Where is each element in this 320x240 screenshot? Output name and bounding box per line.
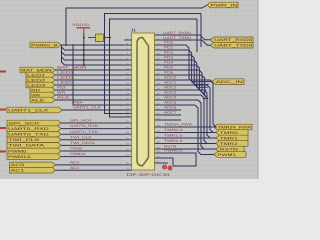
svg-text:ADC3: ADC3 <box>164 91 177 95</box>
svg-text:LED2: LED2 <box>27 78 45 82</box>
svg-text:PWM1.0: PWM1.0 <box>164 149 183 153</box>
svg-text:UART0_TXD: UART0_TXD <box>70 130 99 134</box>
port UART0_TXD <box>7 131 61 137</box>
svg-text:ADC_IN: ADC_IN <box>216 80 244 84</box>
svg-text:PB4: PB4 <box>73 101 83 105</box>
svg-text:TWI_DATA: TWI_DATA <box>8 144 45 148</box>
wire GND row153 <box>162 153 196 166</box>
svg-text:AC0: AC0 <box>70 161 80 165</box>
offsheet marker y=151.5 <box>0 151 6 153</box>
svg-text:UART0_TXD: UART0_TXD <box>8 132 49 136</box>
svg-text:AC1: AC1 <box>11 168 25 172</box>
wire PWM0 <box>61 150 124 152</box>
svg-text:TMR2.0: TMR2.0 <box>164 139 183 143</box>
wire TMR row143.5 <box>162 143 216 145</box>
wire fan row60 <box>62 57 125 60</box>
svg-text:RD: RD <box>31 88 41 92</box>
svg-text:WR: WR <box>31 93 41 97</box>
svg-text:ADC7: ADC7 <box>164 111 177 115</box>
wire cascade row60 <box>162 60 206 90</box>
svg-text:TMR1.0: TMR1.0 <box>164 134 183 138</box>
svg-text:SPI_SCK: SPI_SCK <box>8 121 41 125</box>
wire TMR row138 <box>162 137 216 139</box>
svg-text:ADC5: ADC5 <box>164 101 177 105</box>
svg-text:TMR0.0: TMR0.0 <box>164 128 183 132</box>
svg-text:TWI_CLK: TWI_CLK <box>70 135 93 139</box>
wire stub row120 <box>162 119 181 121</box>
port RSTN <box>216 146 244 152</box>
svg-text:LED1: LED1 <box>57 70 74 74</box>
svg-text:PWR0_B: PWR0_B <box>31 43 59 47</box>
port ADC_IN <box>212 79 244 85</box>
svg-text:TMR24_PWR: TMR24_PWR <box>164 123 193 127</box>
offsheet marker y=109.5 <box>0 109 6 111</box>
svg-text:TWI_DATA: TWI_DATA <box>70 141 96 145</box>
port LED2 <box>26 77 55 83</box>
port RD <box>30 87 55 93</box>
wire LED1 <box>55 74 124 76</box>
svg-text:ALE: ALE <box>57 95 71 99</box>
wire ADC row45 <box>162 45 212 82</box>
svg-text:UART_RXD0: UART_RXD0 <box>163 31 191 35</box>
port TMR2 <box>216 141 248 147</box>
svg-text:TMR0: TMR0 <box>220 131 238 135</box>
port UART0_RXD <box>7 126 61 132</box>
svg-text:VDD33: VDD33 <box>72 23 89 27</box>
svg-text:UART1_CLK: UART1_CLK <box>8 108 50 112</box>
wire loop W3 <box>110 19 198 117</box>
svg-text:PWR_IN: PWR_IN <box>211 3 238 7</box>
port UART1_CLK <box>7 107 62 113</box>
port SPI_SCK <box>7 120 61 126</box>
svg-text:PD3: PD3 <box>164 56 174 60</box>
svg-text:LED3: LED3 <box>57 80 74 84</box>
wire PWR_IN net <box>66 5 207 45</box>
junction VDD y=60 <box>83 59 85 61</box>
svg-text:LED3: LED3 <box>27 83 45 87</box>
wire AC0 <box>56 164 125 166</box>
svg-text:TMR2: TMR2 <box>220 142 238 146</box>
power VDD33 <box>72 23 90 33</box>
svg-text:ADC0: ADC0 <box>164 76 177 80</box>
wire BAT_MON <box>55 69 124 71</box>
junction PWR drop <box>65 44 67 46</box>
port TWI_DATA <box>7 143 61 149</box>
port AC1 <box>10 167 56 173</box>
wire SPI_SCK <box>61 122 124 124</box>
port ALE <box>30 97 55 103</box>
port AC0 <box>10 162 56 168</box>
svg-text:UART_TXD0: UART_TXD0 <box>163 36 191 40</box>
wire cascade row70 <box>162 70 205 96</box>
junction F1 out <box>109 36 111 38</box>
wire loop W2 drop <box>200 14 202 48</box>
wire stub row115 <box>162 114 181 116</box>
port TMR0 <box>216 130 248 136</box>
wire TMR cascade row100 <box>162 100 216 149</box>
wire stub row110 <box>162 109 181 111</box>
svg-text:TMR24_PWR: TMR24_PWR <box>218 125 252 129</box>
wire PB4 riser <box>73 45 124 105</box>
port PWM1A <box>7 154 61 160</box>
svg-text:PWM1A: PWM1A <box>70 152 87 156</box>
svg-text:PWM0: PWM0 <box>8 149 26 153</box>
svg-text:ADC1: ADC1 <box>164 81 177 85</box>
wire ALE <box>55 99 124 101</box>
wire fan row55 <box>62 52 125 55</box>
wire cascade row65 <box>162 65 205 93</box>
svg-text:PD4: PD4 <box>164 61 174 65</box>
svg-text:J1: J1 <box>131 28 136 33</box>
svg-text:PD1: PD1 <box>164 46 174 50</box>
connector J1 pins <box>124 32 162 170</box>
svg-text:RD: RD <box>57 85 66 89</box>
svg-text:UART0_RXD: UART0_RXD <box>8 127 49 131</box>
port UART_TXD0 <box>211 42 254 48</box>
port TMR24_PWR <box>214 124 252 130</box>
svg-text:WR: WR <box>57 90 66 94</box>
port PWR0_B <box>30 42 61 48</box>
svg-text:PWM1: PWM1 <box>218 153 236 157</box>
wire TMR row127 <box>162 126 214 128</box>
wire cascade row75 <box>162 75 208 98</box>
svg-text:UART0_RXD: UART0_RXD <box>70 124 99 128</box>
svg-text:PD6: PD6 <box>164 71 174 75</box>
junction VDD y=65 <box>83 64 85 66</box>
port UART_RXD0 <box>211 37 254 43</box>
wire VDD rail <box>83 33 85 65</box>
wire RD <box>55 89 124 91</box>
wire LED3 <box>55 84 124 86</box>
wire UART_TXD0 <box>162 40 211 45</box>
svg-text:RSTN: RSTN <box>220 147 239 151</box>
wire TMR cascade row80 <box>162 80 216 127</box>
wire TMR cascade row85 <box>162 85 216 133</box>
wire TMR cascade row105 <box>162 105 214 155</box>
wire LED2 <box>55 79 124 81</box>
svg-text:SPI_SCK: SPI_SCK <box>70 119 93 123</box>
svg-text:PWM0: PWM0 <box>70 147 83 151</box>
svg-text:ADC6: ADC6 <box>164 106 177 110</box>
wire TWI_DATA <box>61 144 124 146</box>
wire TMR cascade row95 <box>162 95 216 144</box>
svg-text:BAT_MON: BAT_MON <box>57 65 88 69</box>
svg-text:LED2: LED2 <box>57 75 74 79</box>
wire UART0_RXD <box>61 128 124 130</box>
wire AC1 <box>56 169 125 171</box>
wire fan row50 <box>62 47 125 50</box>
svg-text:AC1: AC1 <box>70 166 80 170</box>
junction VDD tap <box>83 36 85 38</box>
wire PWR0_B row <box>61 44 124 46</box>
port LED1 <box>26 72 55 78</box>
svg-text:BAT_MON: BAT_MON <box>21 68 52 72</box>
wire fan row65 <box>62 62 125 65</box>
ground symbol <box>163 165 173 170</box>
port LED3 <box>26 82 55 88</box>
wire WR <box>55 94 124 96</box>
svg-text:PWM1A: PWM1A <box>8 155 32 159</box>
wire TMR row132.5 <box>162 132 216 134</box>
wire TWI_CLK <box>61 139 124 141</box>
svg-text:DIP-32P-DIC34: DIP-32P-DIC34 <box>127 173 170 177</box>
svg-text:PD0: PD0 <box>164 41 174 45</box>
wire UART0_TXD <box>61 133 124 135</box>
port PWM0 <box>7 148 61 154</box>
svg-text:PD5: PD5 <box>164 66 174 70</box>
port PWM1 <box>214 152 246 158</box>
junction PB4 riser <box>72 44 74 46</box>
svg-text:UART_TXD0: UART_TXD0 <box>214 43 252 47</box>
component F1 <box>88 34 110 42</box>
wire PWR fan stem <box>61 45 63 62</box>
junction VDD y=50 <box>83 49 85 51</box>
port TMR1 <box>216 135 248 141</box>
port TWI_CLK <box>7 137 61 143</box>
offsheet marker y=71.5 <box>0 71 6 73</box>
svg-text:PD2: PD2 <box>164 51 174 55</box>
junction VDD y=45 <box>83 44 85 46</box>
wire TMR cascade row90 <box>162 90 216 138</box>
offsheet marker y=128 <box>0 127 6 129</box>
svg-text:ALE: ALE <box>31 98 46 102</box>
svg-text:UART_RXD0: UART_RXD0 <box>214 38 252 42</box>
svg-text:TMR1: TMR1 <box>220 136 238 140</box>
junction VDD y=55 <box>83 54 85 56</box>
svg-text:TWI_CLK: TWI_CLK <box>8 138 41 142</box>
port BAT_MON <box>20 67 55 73</box>
wire TMR row149 <box>162 148 216 150</box>
svg-text:AC0: AC0 <box>11 163 25 167</box>
wire UART_RXD0 <box>162 35 211 40</box>
wire UART1_CLK <box>62 109 124 111</box>
wire stub row163 <box>162 162 168 164</box>
svg-text:LED1: LED1 <box>27 73 45 77</box>
connector J1 body <box>132 33 155 170</box>
port PWR_IN <box>207 2 238 8</box>
svg-text:ADC2: ADC2 <box>164 86 177 90</box>
svg-text:ADC4: ADC4 <box>164 96 177 100</box>
wire PWM1A <box>61 156 124 158</box>
wire cascade row55 <box>162 55 208 87</box>
svg-text:UART1_CLK: UART1_CLK <box>73 106 102 110</box>
port WR <box>30 92 55 98</box>
wire cascade row50 <box>162 50 209 84</box>
wire loop W3 drop <box>196 19 198 52</box>
wire GND row158 <box>162 158 173 166</box>
wire loop W2 <box>105 14 202 114</box>
